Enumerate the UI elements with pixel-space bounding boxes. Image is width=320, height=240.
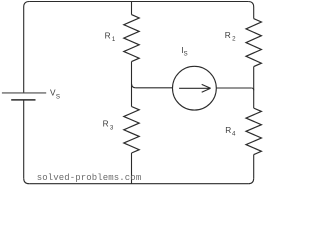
svg-text:R: R xyxy=(225,30,231,40)
current source IS arrow xyxy=(179,84,211,92)
svg-text:R: R xyxy=(103,118,109,128)
svg-text:S: S xyxy=(56,94,60,101)
wire right branch top stub (top wire to R2) xyxy=(253,7,255,19)
current source IS circle xyxy=(173,66,217,110)
node junction fillet middle branch xyxy=(132,84,136,88)
resistor R1 xyxy=(124,15,139,62)
wire left vertical upper (to battery) xyxy=(23,7,25,93)
svg-text:solved-problems.com: solved-problems.com xyxy=(37,173,142,183)
voltage source VS battery short plate xyxy=(11,99,35,101)
wire bottom-right corner xyxy=(248,178,254,184)
wire right branch mid stub (R2 to R4 through junction) xyxy=(253,67,255,109)
svg-text:4: 4 xyxy=(232,131,236,138)
svg-text:1: 1 xyxy=(112,36,116,43)
resistor R3 xyxy=(124,107,139,154)
wire top horizontal xyxy=(29,1,248,3)
svg-text:R: R xyxy=(225,125,231,135)
wire left vertical lower (battery to bottom) xyxy=(23,100,25,178)
resistor R2 xyxy=(246,19,261,67)
wire horizontal to current source left xyxy=(136,87,173,89)
wire bottom-left corner xyxy=(24,178,30,184)
wire horizontal from current source right xyxy=(216,87,251,89)
wire top-left corner xyxy=(24,2,30,8)
svg-text:R: R xyxy=(105,31,111,41)
wire middle branch mid stub (R1 to R3 through node) xyxy=(131,62,133,107)
svg-text:2: 2 xyxy=(232,36,236,43)
junction fillet right branch xyxy=(252,88,254,90)
wire top-right corner xyxy=(248,2,254,8)
wire middle branch bottom stub (R3 to bottom wire) xyxy=(131,153,133,184)
wire bottom horizontal xyxy=(29,183,248,185)
svg-text:3: 3 xyxy=(110,124,114,131)
svg-text:S: S xyxy=(184,50,188,57)
resistor R4 xyxy=(246,108,261,155)
voltage source VS battery long plate xyxy=(2,92,46,94)
wire right branch bottom stub (R4 to bottom corner) xyxy=(253,155,255,179)
wire middle branch top stub (top wire to R1) xyxy=(131,2,133,15)
